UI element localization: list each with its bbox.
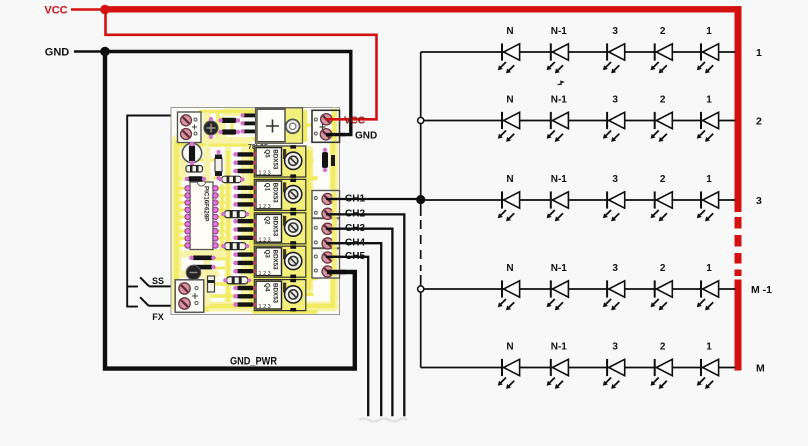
LED row 2 col 3	[603, 112, 625, 142]
node row2 no-connect	[418, 117, 424, 123]
svg-text:1 2 3: 1 2 3	[259, 304, 271, 310]
resistor network at Q5	[233, 152, 257, 173]
PCB terminal block TB3 (SS/FX)	[175, 280, 204, 313]
svg-text:BDX53: BDX53	[272, 250, 279, 271]
row 2 wire	[421, 120, 736, 122]
diode D2	[218, 118, 240, 123]
svg-text:CH5: CH5	[345, 251, 365, 262]
svg-text:3: 3	[612, 26, 618, 37]
svg-text:PIC16F628P: PIC16F628P	[203, 186, 210, 221]
svg-text:Q3: Q3	[264, 250, 271, 259]
svg-text:N-1: N-1	[551, 94, 568, 105]
LED row 3 col N-1	[547, 191, 569, 221]
row M wire	[421, 367, 736, 369]
wire SS stub	[127, 286, 138, 288]
svg-text:Q1: Q1	[264, 183, 271, 192]
svg-text:CH4: CH4	[345, 238, 365, 249]
resistor R3	[186, 166, 203, 173]
svg-text:VCC: VCC	[344, 116, 365, 127]
resistor R5	[221, 243, 249, 250]
wire GND_PWR tip overlay	[327, 270, 345, 274]
resistor network at Q2	[233, 219, 257, 240]
resistor network at Q4	[233, 286, 257, 307]
svg-text:1 2 3: 1 2 3	[259, 271, 271, 277]
LED row 2 col 2	[651, 112, 673, 142]
switch SS blade	[140, 277, 149, 286]
IC U1 PIC16F628	[185, 182, 218, 250]
left column bus (dashed)	[420, 220, 422, 271]
wire VCC label lead	[71, 8, 105, 11]
resistor network at Q3	[233, 252, 257, 273]
wire GND to PCB	[105, 52, 351, 135]
resistor R1	[215, 150, 222, 180]
PCB copper traces	[176, 112, 334, 312]
svg-text:N-1: N-1	[551, 341, 568, 352]
CH1 wire	[330, 198, 421, 200]
svg-text:GND: GND	[45, 47, 70, 59]
svg-text:1 2 3: 1 2 3	[259, 171, 271, 177]
CH4 wire	[330, 243, 381, 416]
svg-text:2: 2	[660, 341, 666, 352]
svg-text:CH1: CH1	[345, 194, 365, 205]
PCB board outline	[171, 108, 340, 315]
resistor R9	[208, 276, 215, 292]
svg-text:1: 1	[706, 94, 712, 105]
wire GND tip overlay	[326, 133, 345, 136]
node row M-1 no-connect	[418, 286, 424, 292]
svg-text:1: 1	[706, 26, 712, 37]
LED row 3 col N	[498, 191, 520, 221]
svg-text:1: 1	[706, 174, 712, 185]
svg-text:1 2 3: 1 2 3	[259, 204, 271, 210]
LED row M -1 col 1	[697, 280, 719, 310]
svg-text:2: 2	[660, 263, 666, 274]
resistor R2	[218, 176, 244, 182]
svg-text:M -1: M -1	[751, 284, 772, 296]
svg-text:N-1: N-1	[551, 174, 568, 185]
svg-text:GND: GND	[355, 131, 377, 142]
resistor R6	[223, 277, 251, 284]
svg-text:CH3: CH3	[345, 223, 365, 234]
resistor R4	[221, 211, 249, 218]
svg-text:BDX53: BDX53	[272, 216, 279, 237]
svg-text:3: 3	[612, 174, 618, 185]
svg-text:BDX53: BDX53	[272, 283, 279, 304]
svg-text:3: 3	[612, 263, 618, 274]
svg-text:BDX53: BDX53	[272, 183, 279, 204]
left column bus (solid bottom)	[420, 275, 422, 368]
svg-text:BDX53: BDX53	[272, 149, 279, 170]
red anode bus (solid bottom)	[735, 280, 742, 371]
LED row M -1 col 3	[603, 280, 625, 310]
row M -1 wire	[421, 288, 736, 290]
LED row 1 col 2	[651, 43, 673, 73]
red anode bus (dashed)	[735, 217, 742, 276]
svg-text:N: N	[506, 341, 513, 352]
svg-text:CH2: CH2	[345, 209, 365, 220]
transistor Q4 BDX53	[254, 279, 305, 312]
transistor Q1 BDX53	[254, 179, 305, 212]
faint watermark smudge	[359, 419, 407, 422]
svg-text:1: 1	[706, 341, 712, 352]
transistor Q3 BDX53	[254, 245, 305, 278]
node CH1 junction	[416, 195, 425, 204]
svg-text:N: N	[506, 263, 513, 274]
LED row 1 col N-1	[547, 43, 569, 73]
svg-text:N: N	[506, 26, 513, 37]
svg-text:N: N	[506, 94, 513, 105]
svg-text:Q4: Q4	[264, 283, 271, 292]
resistor network at Q1	[233, 186, 257, 207]
LED row M col N-1	[547, 359, 569, 389]
svg-text:1 2 3: 1 2 3	[259, 237, 271, 243]
CH5 wire	[330, 257, 368, 417]
wire CH tip overlays	[326, 199, 340, 257]
jumper wires W1	[240, 113, 255, 133]
CH3 wire	[330, 229, 392, 417]
svg-text:N-1: N-1	[551, 26, 568, 37]
LED row M col N	[498, 359, 520, 389]
LED row 1 col 3	[603, 43, 625, 73]
row 1 wire	[421, 51, 736, 53]
wire GND_PWR loop	[105, 52, 355, 369]
CH2 wire	[330, 214, 404, 416]
wire to switch bracket	[127, 116, 171, 307]
svg-text:2: 2	[660, 94, 666, 105]
transistor Q2 BDX53	[254, 212, 305, 245]
PCB terminal blocks TB4-TB6 (CH1-CH5, GND_PWR)	[312, 191, 340, 279]
node VCC junction	[100, 5, 110, 15]
svg-text:3: 3	[612, 94, 618, 105]
row 3 wire	[421, 199, 736, 201]
LED row 3 col 1	[697, 191, 719, 221]
diode D5	[185, 176, 207, 181]
LED row 1 col 1	[697, 43, 719, 73]
svg-text:Q5: Q5	[264, 149, 271, 158]
LED row M col 2	[651, 359, 673, 389]
capacitor C3	[186, 265, 200, 279]
svg-text:M: M	[756, 363, 765, 375]
wire FX to PCB	[149, 305, 181, 307]
left column bus (solid top)	[420, 52, 422, 216]
svg-text:2: 2	[660, 26, 666, 37]
LED row 1 col N	[498, 43, 520, 73]
svg-text:1: 1	[706, 263, 712, 274]
switch FX blade	[140, 297, 149, 306]
svg-text:3: 3	[612, 341, 618, 352]
svg-text:N: N	[506, 174, 513, 185]
diode D1	[182, 142, 201, 166]
PCB terminal block TB2 (VCC/GND)	[312, 110, 340, 142]
LED row M col 3	[603, 359, 625, 389]
LED row M -1 col N	[498, 280, 520, 310]
svg-text:2: 2	[756, 116, 762, 128]
LED row 3 col 3	[603, 191, 625, 221]
capacitor C2	[322, 148, 335, 172]
LED row M col 1	[697, 359, 719, 389]
svg-text:1: 1	[756, 47, 762, 59]
transistor Q5 BDX53	[254, 145, 305, 178]
LED row 2 col N	[498, 112, 520, 142]
svg-text:SS: SS	[152, 276, 164, 286]
LED row M -1 col 2	[651, 280, 673, 310]
node GND junction	[100, 47, 110, 57]
wire VCC top bus	[105, 6, 742, 12]
svg-text:GND_PWR: GND_PWR	[230, 356, 277, 368]
wire GND label lead	[74, 50, 105, 52]
red anode bus (solid top)	[735, 6, 742, 212]
svg-text:2: 2	[660, 174, 666, 185]
LED row 3 col 2	[651, 191, 673, 221]
wire VCC tip overlay	[326, 118, 341, 121]
svg-text:VCC: VCC	[44, 5, 67, 17]
small arrow mark	[558, 80, 565, 84]
wire VCC to PCB	[106, 10, 377, 120]
jumper wires W2	[189, 256, 215, 270]
svg-text:N-1: N-1	[551, 263, 568, 274]
LED row 2 col N-1	[547, 112, 569, 142]
wire SS to PCB	[149, 285, 181, 287]
PCB terminal block TB1 (switch input)	[178, 112, 202, 143]
svg-text:Q2: Q2	[264, 216, 271, 225]
diode D3	[218, 129, 240, 134]
svg-text:FX: FX	[152, 312, 164, 322]
regulator U2 78L05	[248, 108, 303, 151]
LED row 2 col 1	[697, 112, 719, 142]
svg-text:3: 3	[756, 195, 762, 207]
capacitor C4	[204, 117, 218, 139]
LED row M -1 col N-1	[547, 280, 569, 310]
